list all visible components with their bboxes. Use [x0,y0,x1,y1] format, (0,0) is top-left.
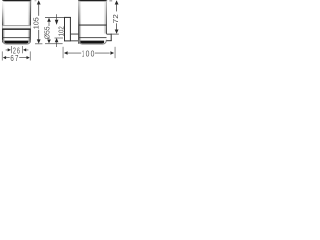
svg-text:7: 7 [15,54,19,63]
svg-text:0: 0 [86,49,90,58]
svg-text:Ø55: Ø55 [44,26,51,39]
svg-text:0: 0 [91,49,95,58]
svg-text:105: 105 [34,17,41,29]
svg-text:72: 72 [113,14,120,23]
svg-text:1: 1 [82,49,84,58]
svg-text:6: 6 [10,54,14,63]
